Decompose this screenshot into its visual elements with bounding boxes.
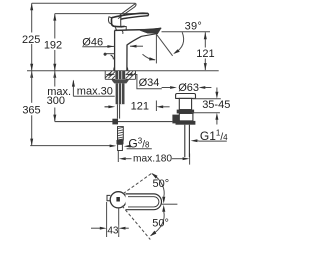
faucet threaded shank in deck [115, 71, 125, 79]
label G3/8 leader arrow [124, 145, 131, 148]
39 degree vertical construction line [155, 34, 157, 63]
wire top reference line 225 [32, 2, 136, 4]
39 degree arc left [143, 54, 156, 60]
39 degree inclined jet line [156, 34, 172, 56]
faucet hose bundle below nut [116, 83, 125, 104]
dimension 192 vertical line [54, 14, 56, 71]
dimension Ø46 inner arrow [130, 45, 143, 47]
svg-text:192: 192 [44, 40, 62, 52]
dimension max180 [117, 151, 119, 162]
plan view swivel dashed line upper [123, 173, 152, 193]
svg-text:max.180: max.180 [133, 154, 172, 165]
pop-up rod junction block [112, 119, 118, 125]
svg-text:121: 121 [196, 48, 214, 60]
drain ball joint block [172, 115, 179, 124]
hose connector nut [117, 140, 124, 144]
svg-text:Ø34: Ø34 [139, 77, 160, 89]
dimension 225 vertical line [31, 3, 33, 71]
dimension 43 extension lines [107, 202, 119, 237]
dimension 121 bottom left arrow [105, 106, 110, 108]
dimension 225 arrows [30, 3, 33, 78]
faucet mounting nut below deck [111, 80, 129, 84]
svg-text:365: 365 [22, 104, 40, 116]
39 degree arc right [175, 32, 184, 53]
dimension Ø63 arrows [162, 87, 170, 89]
svg-text:300: 300 [47, 95, 65, 107]
faucet pop-up knob at back [106, 54, 115, 60]
drain tail pipe [185, 125, 190, 157]
plan view lever outline [126, 194, 162, 210]
faucet body left edge [114, 30, 116, 70]
svg-text:max.30: max.30 [77, 86, 113, 98]
dimension 121 right arrows [204, 32, 207, 70]
svg-text:43: 43 [107, 226, 119, 237]
faucet raised lever outline [108, 3, 136, 24]
dimension Ø34 hole arrows [106, 74, 109, 76]
faucet pop-up rod upper [117, 104, 119, 118]
max300 hose level line with pop-up rod [55, 121, 173, 123]
label G1 1/4 leader arrow [191, 139, 198, 142]
plan view swivel dashed line lower [122, 206, 150, 240]
plan view lever axis reference line [162, 203, 178, 205]
svg-text:35-45: 35-45 [202, 99, 230, 111]
drain disc [176, 121, 196, 125]
label 43 [107, 225, 118, 235]
svg-text:39°: 39° [185, 20, 203, 32]
wire counter line [27, 70, 219, 72]
faucet spout underside curve [127, 36, 142, 70]
counter deck section right hatch [126, 71, 136, 80]
dimension 192 arrows [53, 14, 56, 78]
plan view body circle [110, 192, 126, 208]
counter deck section left hatch [105, 71, 115, 80]
dimension max30 bracket [72, 81, 74, 97]
svg-text:50°: 50° [153, 178, 170, 190]
plan view set screw notch [107, 195, 110, 200]
dimension 35-45 boundary lines [193, 98, 221, 100]
faucet lever base cover [115, 27, 126, 34]
dimension 43 arrows [91, 227, 101, 229]
dimension Ø46 underline and arrow [82, 46, 105, 48]
39 degree label reference line [162, 31, 211, 33]
drain lock nut [177, 110, 194, 114]
faucet body top line [115, 29, 151, 32]
faucet spout tip aerator wedge [138, 28, 161, 33]
365 reference line with arrow to connector [30, 145, 110, 147]
faucet spout top edge [150, 28, 161, 30]
dimension 121 right vertical line [204, 32, 206, 70]
drain lower body [179, 113, 193, 121]
drain flange [176, 94, 196, 99]
dimension 365 vertical line [31, 71, 33, 146]
dimension 365 bottom arrow [30, 139, 33, 146]
dimension max300 bottom arrow [53, 115, 56, 122]
drain upper body [179, 98, 191, 109]
plan view upper 50 degree arc [152, 174, 164, 197]
svg-text:225: 225 [22, 34, 40, 46]
spout tip extension line lower [155, 101, 157, 112]
svg-text:50°: 50° [152, 218, 169, 230]
faucet base flare [114, 67, 128, 71]
hose connector threaded section [118, 127, 124, 140]
svg-text:Ø63: Ø63 [178, 82, 199, 94]
hose connector tip [118, 144, 123, 150]
faucet closed lever [111, 13, 148, 27]
svg-text:121: 121 [131, 100, 149, 112]
plan view lever inner outline [128, 197, 159, 207]
faucet spout bottom edge [142, 34, 158, 37]
dimension Ø34 leader line [132, 75, 162, 89]
plan view lower 50 degree arc [151, 212, 164, 236]
wire reference line 192 [55, 13, 148, 15]
dimension 35-45 arrows [216, 88, 218, 93]
dimension 121 bottom right arrow [156, 105, 163, 108]
dimension max300 vertical line [54, 71, 56, 122]
plan view cartridge dot [116, 197, 120, 202]
